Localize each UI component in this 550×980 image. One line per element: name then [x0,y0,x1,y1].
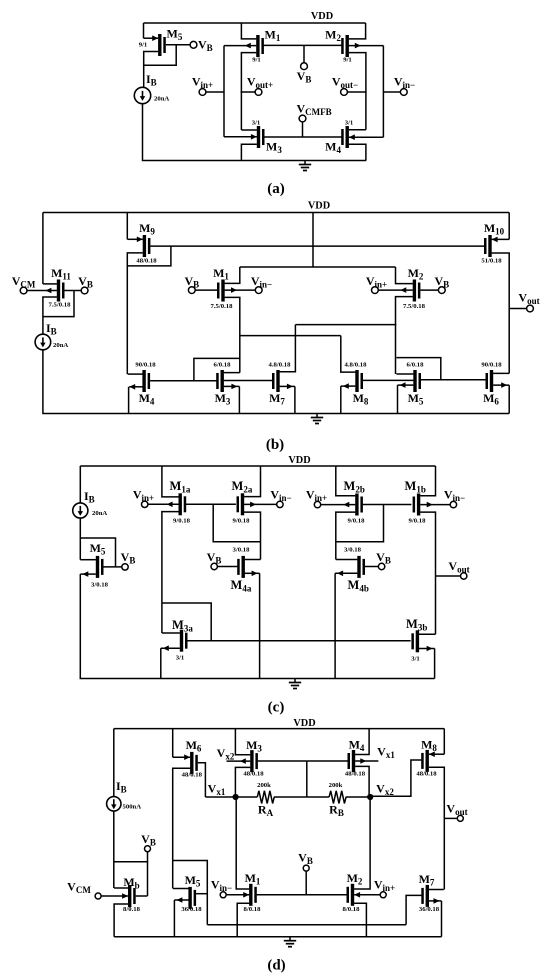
M6 drain wire up (b) [493,372,509,374]
M2 bulk arrow to Vin- (a) [349,45,384,47]
transistor M5 (c) NMOS diode-connected bias [96,556,99,578]
M5 gate lead (d) [196,893,207,895]
Vout+ terminal (a) [255,89,262,96]
M9 gate-drain loop (b) [127,246,171,266]
ground rail (d) [114,936,441,938]
transistor M1 (a) PMOS bulk-driven [256,35,259,57]
svg-text:4.8/0.18: 4.8/0.18 [345,362,368,369]
svg-text:48/0.18: 48/0.18 [345,771,366,778]
M2b source wire to VDD (c) [336,466,356,496]
M5 gate-drain loop (a) [144,45,177,66]
svg-text:VDD: VDD [311,11,333,22]
svg-text:3/1: 3/1 [176,655,185,662]
M1b drain wire down to Vout and M3b (c) [420,512,435,634]
M1a drain wire down to M3a (c) [162,512,179,633]
Vout terminal (b) [527,305,534,312]
VCM terminal (d) [95,893,101,899]
svg-text:7.5/0.18: 7.5/0.18 [403,303,426,310]
VB terminal near M11 (b) [81,287,88,294]
Mb gate lead (d) [136,895,148,897]
M2b-M1b gate line (c) [363,504,412,506]
ground symbol (b) [316,414,318,418]
M2 gate lead to VB (b) [420,289,438,291]
M3 source arrow to ground (b) [224,385,240,387]
M1b bulk arrow to Vin- (c) [420,504,450,506]
svg-text:90/0.18: 90/0.18 [481,362,502,369]
Vout- terminal (a) [341,89,348,96]
svg-text:8/0.18: 8/0.18 [123,906,141,913]
resistor RA 200k (d) [257,791,274,804]
svg-text:8/0.18: 8/0.18 [343,906,361,913]
svg-text:6/0.18: 6/0.18 [214,362,232,369]
svg-text:(b): (b) [266,437,284,453]
M2 bulk arrow to Vin+ (b) [378,289,413,291]
svg-text:3/1: 3/1 [411,656,420,663]
M2 source wire to ground (d) [354,903,366,936]
M5 gate lead to VB (c) [103,566,121,568]
svg-text:3/0.18: 3/0.18 [233,547,251,554]
M11 gate lead to VB (b) [64,290,81,292]
M5 gate loop wire (d) [173,861,207,925]
VB wire down to Mb gate (d) [147,852,149,896]
M3a drain lead up (c) [162,632,180,634]
VDD rail (a) [144,22,366,24]
M5 source arrow to ground (b) [398,384,414,386]
M4b gate lead to VB (c) [365,566,378,568]
M3-M4 gate line (a) [264,136,341,138]
M4b drain lead up (c) [336,559,358,561]
svg-text:20nA: 20nA [92,510,107,517]
svg-text:51/0.18: 51/0.18 [481,258,502,265]
svg-text:7.5/0.18: 7.5/0.18 [49,302,72,309]
current source IB 20nA (b) [35,334,51,350]
junction dot Vx1 (d) [233,794,239,800]
svg-text:9/0.18: 9/0.18 [233,518,251,525]
current source IB 20nA (a) [134,87,150,103]
Vx2 line right segment (d) [346,796,371,798]
M3b drain lead up (c) [419,633,436,635]
svg-text:4.8/0.18: 4.8/0.18 [269,362,292,369]
Vin+ terminal left (c) [142,501,148,507]
svg-text:9/1: 9/1 [139,42,148,49]
M3 source wire to VDD (d) [235,729,250,755]
transistor M4 (a) NMOS bulk-driven [346,126,349,148]
svg-text:8/0.18: 8/0.18 [244,906,262,913]
ground symbol (a) [304,161,306,165]
Vin+ terminal (b) [372,287,379,294]
Vx1-Vx2 middle segment (d) [274,796,329,798]
Vout terminal (d) [457,815,463,821]
M10 drain wire down to Vout and M6 (b) [492,253,510,373]
M3-M4 gate line (d) [258,760,348,762]
wire IB down to Mb (d) [113,811,115,888]
wire VDD down to M11 source (b) [42,213,44,284]
M5 gate lead to VB (a) [166,44,190,46]
M4 drain wire down to Vx2 (d) [355,766,369,797]
M8 source arrow (d) [429,753,445,755]
Mb drain to VB node wire (d) [114,861,147,863]
M2a source wire to VDD (c) [244,466,260,497]
M2 source wire to VDD (a) [349,23,366,39]
M8 gate wire to Vx2 (d) [370,760,421,796]
transistor M5 (d) NMOS diode-connected [188,887,191,909]
M2b drain wire down to M4b (c) [336,512,356,559]
M1a source wire to VDD (c) [162,466,179,497]
M3 gate loop to drain node (b) [194,358,240,380]
wire VDD to M6 source (d) [172,729,174,758]
transistor M1 (b) PMOS bulk-driven input [221,280,224,302]
svg-text:VDD: VDD [308,201,330,212]
M4-M3 gate line (b) [150,380,217,382]
M2 drain wire down (b) [396,297,413,374]
current source IB 20nA (c) [73,503,88,518]
M3a gate-drain loop (c) [162,603,211,641]
center vertical VDD to tail (b) [312,213,314,268]
Mb source wire to ground (d) [114,904,128,937]
M9 drain wire down to M4 (b) [127,253,143,374]
M4 source arrow to ground (b) [129,386,142,388]
circuit (c) [73,455,470,716]
wire VDD to M5 source (a) [143,23,145,38]
svg-text:36/0.18: 36/0.18 [181,906,202,913]
VDD rail (d) [114,728,445,730]
transistor M6 (b) NMOS output [490,370,493,392]
svg-text:9/1: 9/1 [252,56,261,63]
M5 drain wire to IB (a) [144,52,159,88]
M8 gate line to M5 channel (b) [363,379,414,381]
svg-text:3/1: 3/1 [252,120,261,127]
Vin+ terminal (d) [380,892,386,898]
circuit (b) [12,201,540,454]
svg-text:20nA: 20nA [53,342,68,349]
wire Vout- to drain wire (a) [347,91,366,93]
transistor M6 (d) PMOS [190,752,193,774]
Vin- terminal mid-left (c) [277,501,283,507]
M5 drain lead (d) [173,888,189,890]
M11 bulk arrow to VCM (b) [27,290,57,292]
transistor M7 (b) NMOS [276,370,279,392]
M8 drain wire down to Vout and M7 (d) [429,767,445,889]
wire IB to ground rail (b) [43,350,509,414]
transistor M4 (d) PMOS bulk to Vx1 [352,750,355,772]
transistor M2 (b) PMOS bulk-driven input [413,280,416,302]
svg-text:200k: 200k [257,782,271,789]
M4 bulk arrow from Vin- (a) [349,136,384,138]
transistor M8 (b) NMOS [355,370,358,392]
M1 source wire to tail (b) [225,267,240,283]
M5 source arrow to ground (c) [80,573,96,575]
transistor Mb (d) NMOS diode-connected bias, bulk to VCM [128,885,131,907]
VB terminal near M5 (a) [190,41,197,48]
VB terminal center (d) [303,865,309,871]
svg-text:48/0.18: 48/0.18 [182,772,203,779]
M4 bulk arrow toward Vx1 label (d) [355,760,378,762]
svg-text:3/0.18: 3/0.18 [344,547,362,554]
center vertical gate line to resistor mid (d) [306,761,308,797]
M2a gate-drain loop (c) [213,504,260,541]
VB terminal left (d) [145,846,151,852]
M2 drain wire up to Vx2 (d) [354,797,370,889]
svg-text:9/1: 9/1 [343,56,352,63]
M3 drain wire down to Vx1 (d) [235,767,250,797]
transistor M7 (d) NMOS output [426,885,429,907]
M5 source arrow (a) [144,37,159,39]
ground symbol (d) [289,937,291,941]
M1a-M2a gate line (c) [186,503,236,505]
svg-text:9/0.18: 9/0.18 [348,518,366,525]
wire VDD to IB (d) [113,729,115,797]
svg-text:48/0.18: 48/0.18 [136,258,157,265]
M7 source arrow to ground (d) [429,900,442,902]
circuit (a) [134,11,415,197]
transistor M3 (b) NMOS diode-connected [221,370,224,392]
Vin- terminal (d) [220,892,226,898]
svg-text:3/0.18: 3/0.18 [91,582,109,589]
wire VDD to IB (c) [79,466,81,503]
svg-text:7.5/0.18: 7.5/0.18 [211,303,234,310]
Vx1 line left segment (d) [205,796,257,798]
M3 bulk arrow toward Vx2 label (d) [227,760,251,762]
VB terminal left of M1 (b) [188,287,195,294]
transistor M11 (b) PMOS diode-connected, bulk to VCM [57,280,60,302]
M3 channel to M7 gate line (b) [224,380,273,382]
M2b gate-drain loop (c) [336,505,384,542]
transistor M1a (c) PMOS bulk-driven [179,493,182,515]
wire VDD to M10 source (b) [508,213,510,240]
M5-M7 gate line (d) [207,924,406,926]
wire Vout+ to drain wire (a) [241,91,256,93]
junction dot Vx2 (d) [367,794,373,800]
VDD rail (c) [80,465,435,467]
svg-text:6/0.18: 6/0.18 [407,362,425,369]
VB center wire (d) [305,872,307,895]
M2 bulk arrow from Vin+ (d) [354,894,380,896]
M4a drain lead up (c) [245,559,261,561]
M4a source arrow down to ground (c) [245,572,260,574]
svg-text:VDD: VDD [293,718,315,729]
transistor M1 (d) NMOS bulk-driven input [249,884,252,906]
transistor M3 (a) NMOS bulk-driven [257,126,260,148]
M4b source arrow down to ground (c) [335,572,357,574]
M1a bulk arrow to Vin+ (c) [148,503,179,505]
M1 bulk arrow to Vin- (b) [225,289,256,291]
M5 drain lead (b) [396,373,413,375]
VCM terminal (b) [20,287,27,294]
Vout terminal (c) [461,573,467,579]
M1-M2 gate line (d) [257,894,348,896]
M3 source wire to ground (a) [241,144,257,160]
M11 source lead (b) [43,283,57,285]
M5 drain lead (c) [80,559,96,561]
M1 source wire to VDD (a) [241,23,256,39]
M1 drain wire up to Vx1 (d) [236,797,249,889]
M8 drain wire up to cross wire (b) [341,336,356,373]
M2a drain wire down to M4a (c) [244,512,260,559]
M4 source wire to VDD (d) [355,729,369,755]
M9 source arrow (b) [127,238,143,240]
M7 drain wire up (d) [429,889,444,891]
svg-text:3/1: 3/1 [345,120,354,127]
cross wire first-stage right output to M7 drain (b) [295,324,396,326]
VB terminal right of M5 (c) [122,564,128,570]
Mb drain lead (d) [114,887,128,889]
wire Vout (b) [509,308,526,310]
M1-M2 gate line with VB tap (a) [264,44,343,46]
wire IB to M5 drain (c) [79,518,81,560]
transistor M2a (c) PMOS bulk-driven [241,493,244,515]
M4a gate lead from VB (c) [218,566,238,568]
svg-text:20nA: 20nA [154,96,169,103]
svg-text:500nA: 500nA [123,804,142,811]
wire Vin- to bulk wire (a) [383,91,400,93]
transistor M8 (d) PMOS output [426,750,429,772]
transistor M3b (c) NMOS mirror output [416,630,419,652]
transistor M5 (b) NMOS diode-connected [413,370,416,392]
M7 drain wire up to cross wire (b) [280,325,296,372]
svg-text:9/0.18: 9/0.18 [173,518,191,525]
M7 gate wire down (d) [406,895,421,924]
wire Vout (d) [444,817,457,819]
transistor M3a (c) NMOS mirror diode [180,630,183,652]
Vin- terminal (a) [400,89,407,96]
transistor M4 (b) NMOS mirror [142,370,145,392]
M1b source wire to VDD (c) [420,466,435,496]
VDD rail (b) [43,212,509,214]
svg-text:48/0.18: 48/0.18 [243,771,264,778]
M5-M6 gate line (b) [421,379,486,381]
M4 drain lead (b) [128,373,143,375]
wire IB to ground rail (a) [143,104,367,161]
M3 bulk arrow from Vin+ (a) [224,136,257,138]
M11 gate-drain loop (b) [43,291,74,317]
transistor M9 (b) PMOS diode-connected [143,235,146,257]
VB terminal left of M4a (c) [211,563,217,569]
svg-text:(c): (c) [268,700,285,716]
Mb bulk arrow from VCM (d) [102,895,129,897]
M7 source arrow to ground (b) [280,385,295,387]
svg-text:(d): (d) [267,958,285,974]
M1 drain wire down (b) [225,297,240,372]
M3a-M3b gate line (c) [187,640,410,642]
resistor RB 200k (d) [329,791,346,804]
M5 source arrow to ground (d) [174,899,188,901]
wire Vin+ to M1/M3 bulks (a) [206,91,224,93]
current source IB 500nA (d) [107,797,121,811]
svg-text:36/0.18: 36/0.18 [419,906,440,913]
M1 drain wire down (Vout+ node) (a) [241,53,256,130]
circuit (d) [67,718,467,974]
M6 gate wire to Vx1 (d) [198,763,206,797]
Vin+ terminal mid-right (c) [314,501,320,507]
M2 drain wire down (Vout- node) (a) [349,53,366,130]
wire M5 source down to ground rail (c) [80,574,434,678]
VB terminal right of M2 (b) [438,287,445,294]
M3a source arrow to ground (c) [161,647,180,649]
transistor M1b (c) PMOS bulk-driven [417,494,420,516]
wire VDD to M9 source (b) [126,213,128,240]
M4 source wire to ground (a) [349,144,366,160]
M11 drain wire down (b) [43,297,57,334]
VB terminal center (a) [301,63,308,70]
transistor M2 (a) PMOS bulk-driven [346,35,349,57]
Vin- terminal (b) [255,287,262,294]
Vin- terminal right (c) [450,501,456,507]
VB terminal right of M4b (c) [378,563,384,569]
svg-text:9/0.18: 9/0.18 [409,518,427,525]
M6 source arrow (d) [173,756,191,758]
wire Vout (c) [436,575,461,577]
wire Vin- vertical (a) [382,46,384,138]
M2b bulk arrow to Vin+ (c) [321,504,355,506]
M1 bulk arrow to Vin+ (a) [224,45,256,47]
M5 gate-drain loop (c) [80,538,115,567]
transistor M5 (a) PMOS diode-connected [158,34,161,56]
transistor M4b (c) NMOS cascode [357,556,360,578]
transistor M2 (d) NMOS bulk-driven input [351,884,354,906]
M3b source arrow to ground (c) [419,648,435,650]
transistor M10 (b) PMOS mirror output [488,235,491,257]
M10 source arrow (b) [492,238,510,240]
M1 gate lead from VB (b) [195,289,217,291]
wire VCMFB to M3/M4 gate line (a) [302,122,304,137]
transistor M3 (d) PMOS bulk to Vx2 [250,750,253,772]
M4 drain lead (a) [349,129,366,131]
transistor M2b (c) PMOS bulk-driven [355,494,358,516]
wire VDD to M8 source (d) [443,729,445,755]
svg-text:VDD: VDD [288,455,310,466]
M6 drain wire down to M5 (d) [173,768,191,888]
cross wire first-stage left output to M8 drain (b) [240,335,341,337]
svg-text:90/0.18: 90/0.18 [135,362,156,369]
M5 gate loop to drain node (b) [396,358,440,380]
svg-text:48/0.18: 48/0.18 [416,771,437,778]
VCMFB terminal (a) [299,115,306,122]
M3 drain lead up (b) [224,372,240,374]
M2 source wire to tail (b) [396,267,413,284]
M3 drain lead (a) [241,129,257,131]
M2a bulk arrow to Vin- (c) [244,503,276,505]
M8 source arrow to ground (b) [341,385,356,387]
M9-M10 gate line (b) [150,245,486,247]
Vin+ terminal (a) [199,89,206,96]
svg-text:200k: 200k [329,782,343,789]
M1 source wire to ground (d) [237,903,249,936]
tail line M1-M2 sources (b) [240,266,396,268]
M1 bulk arrow from Vin- (d) [227,894,250,896]
svg-text:(a): (a) [267,181,285,197]
ground symbol (c) [294,679,296,683]
transistor M4a (c) NMOS cascode [242,556,245,578]
M6 source arrow to ground (b) [493,384,509,386]
